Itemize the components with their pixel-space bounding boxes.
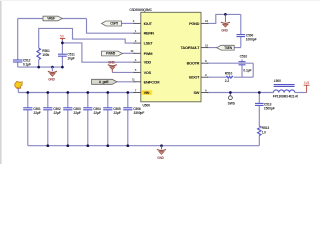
capacitor C501 <box>23 107 41 115</box>
svg-text:GND: GND <box>157 156 164 160</box>
page left edge <box>0 0 2 164</box>
wire C511 bottom <box>61 57 63 67</box>
ground bottom bus <box>157 146 166 160</box>
junction node C506/VIN bus <box>126 91 129 94</box>
svg-text:0.1µF: 0.1µF <box>23 63 31 67</box>
junction node C502/VIN bus <box>46 91 49 94</box>
svg-text:REFIN: REFIN <box>144 31 155 36</box>
wire VOS to gnd stub <box>112 71 135 73</box>
wire C505 top lead <box>107 93 109 108</box>
svg-text:TAO/FAULT: TAO/FAULT <box>181 45 200 50</box>
svg-text:C510: C510 <box>240 55 248 59</box>
wire C502 top lead <box>47 93 49 108</box>
wire C504 top lead <box>87 93 89 108</box>
wire L500 to VOUT flag <box>295 92 307 94</box>
wire VIN bus <box>18 92 135 94</box>
junction node gnd/bottom bus <box>160 144 163 147</box>
net tag TSEN <box>217 45 234 50</box>
svg-text:U500: U500 <box>143 104 151 108</box>
svg-text:BOOTR: BOOTR <box>187 61 200 66</box>
wire ground bus left <box>18 66 63 68</box>
junction node PGND/gnd <box>224 13 227 16</box>
pin 2 IOUT <box>133 19 153 26</box>
svg-text:22µF: 22µF <box>94 111 101 115</box>
svg-text:3300pF: 3300pF <box>134 111 145 115</box>
svg-text:A_gat5: A_gat5 <box>99 80 109 84</box>
wire C513 top lead <box>258 93 260 104</box>
svg-text:FP1308R3-R21-R: FP1308R3-R21-R <box>273 95 299 99</box>
wire C503 top lead <box>67 93 69 108</box>
wire TSEN to C500 <box>207 47 241 49</box>
pin 6 SW <box>194 88 209 95</box>
pin 10 PWM <box>130 49 152 56</box>
wire C512 bottom <box>17 63 19 68</box>
wire PGND up and over <box>207 14 241 23</box>
svg-text:2.2: 2.2 <box>225 79 230 83</box>
wire REFIN drop <box>87 19 136 34</box>
wire A_gate stub <box>117 81 135 83</box>
wire R513 bottom <box>258 135 260 145</box>
junction node C504/VIN bus <box>86 91 89 94</box>
svg-text:22µF: 22µF <box>54 111 61 115</box>
wire C506 bottom lead <box>127 110 129 145</box>
junction node R501/gnd bus <box>37 66 40 69</box>
svg-text:22µF: 22µF <box>34 111 41 115</box>
wire 12Vin lead <box>17 88 19 92</box>
svg-text:1.0: 1.0 <box>262 130 267 134</box>
inductor L500 <box>273 79 299 99</box>
net tag VREF <box>43 16 62 21</box>
capacitor C503 <box>63 107 81 115</box>
svg-text:GND: GND <box>221 29 228 33</box>
wire bottom ground bus <box>28 145 259 147</box>
capacitor C512 <box>13 58 31 66</box>
svg-text:1000pF: 1000pF <box>246 37 257 41</box>
page top edge <box>0 0 320 1</box>
junction node SW/SWS <box>229 91 232 94</box>
resistor R510 <box>225 71 233 83</box>
svg-text:0.1µF: 0.1µF <box>243 68 251 72</box>
wire R501 bottom <box>38 60 40 67</box>
ground top right <box>221 14 230 32</box>
wire SW <box>207 92 273 94</box>
test point SWS <box>228 96 236 106</box>
svg-text:BOOT: BOOT <box>189 75 200 80</box>
junction node C511/gnd bus <box>61 66 64 69</box>
wire SWS stub <box>229 93 231 97</box>
svg-text:EN/FCCM: EN/FCCM <box>144 79 160 84</box>
junction node C505/bottom bus <box>106 144 109 147</box>
svg-text:GND: GND <box>48 77 55 81</box>
svg-text:100k: 100k <box>42 53 49 57</box>
svg-text:PWM: PWM <box>144 51 153 56</box>
capacitor C502 <box>43 107 61 115</box>
wire BOOT left part <box>207 76 226 78</box>
wire C502 bottom lead <box>47 110 49 145</box>
svg-text:CSD95490Q5MC: CSD95490Q5MC <box>129 8 152 12</box>
ground at VOS <box>108 61 117 73</box>
capacitor C504 <box>83 107 101 115</box>
op-amp U500 power stage CSD95490Q5MC body <box>129 8 201 107</box>
wire BOOT right part <box>234 76 254 78</box>
svg-text:LSET: LSET <box>144 41 154 46</box>
junction node 5V/VDD <box>61 42 64 45</box>
power flag 12Vin <box>15 81 23 88</box>
net tag A_gat5 <box>92 79 117 84</box>
pin 5 VOS <box>134 68 152 75</box>
capacitor C505 <box>103 107 121 115</box>
wire 5V node down to C511 <box>61 39 63 54</box>
svg-text:VOS: VOS <box>144 70 152 75</box>
svg-text:IOUT: IOUT <box>144 21 153 26</box>
wire C500 top lead <box>240 14 242 34</box>
svg-text:L500: L500 <box>274 79 281 83</box>
net tag PWM5 <box>102 51 123 56</box>
capacitor C500 <box>237 34 257 42</box>
wire BOOTR <box>207 62 253 64</box>
svg-text:22µF: 22µF <box>74 111 81 115</box>
svg-text:PWM5: PWM5 <box>106 52 115 56</box>
pin 11 EN/FCOM <box>132 78 159 85</box>
capacitor C506 <box>123 107 144 115</box>
pin 4 VDD <box>134 58 152 65</box>
resistor R513 <box>258 126 270 135</box>
pin 12 TAO/FAULT <box>181 43 209 50</box>
svg-text:1500pF: 1500pF <box>264 106 275 110</box>
svg-text:VREF: VREF <box>47 17 55 21</box>
wire R501 top to LSET <box>39 28 135 48</box>
wire C506 top lead <box>127 93 129 108</box>
svg-text:GND: GND <box>108 61 115 65</box>
junction node C505/VIN bus <box>106 91 109 94</box>
junction node C503/VIN bus <box>66 91 69 94</box>
wire 5V node to VDD <box>62 43 135 62</box>
junction node C502/bottom bus <box>46 144 49 147</box>
svg-text:VIN: VIN <box>144 90 150 95</box>
wire C501 top lead <box>27 93 29 108</box>
pin 7 VIN <box>134 88 153 95</box>
capacitor C511 <box>58 53 75 61</box>
svg-text:SW: SW <box>194 90 200 95</box>
svg-text:PGND: PGND <box>189 21 200 26</box>
resistor R501 <box>37 48 50 59</box>
power flag 5V <box>60 35 65 41</box>
svg-text:SWS: SWS <box>228 102 236 106</box>
wire C503 bottom lead <box>67 110 69 145</box>
junction node C506/bottom bus <box>126 144 129 147</box>
ground left of C511 <box>48 67 57 81</box>
svg-text:TSEN: TSEN <box>224 46 233 50</box>
svg-text:VDD: VDD <box>144 60 152 65</box>
junction node SW/C513 <box>258 91 261 94</box>
pin 3 LSET <box>134 39 154 46</box>
power flag VOUT 1V8 <box>304 81 310 92</box>
wire CSP5 stub <box>122 22 136 24</box>
pin 1 REFIN <box>134 29 155 36</box>
wire C500 bottom lead <box>240 37 242 48</box>
wire C501 bottom lead <box>27 110 29 145</box>
wire VREF horizontal <box>18 18 87 20</box>
wire VREF left vertical to C512 <box>17 19 19 60</box>
wire C510 top lead <box>241 59 243 61</box>
wire C504 bottom lead <box>87 110 89 145</box>
wire C505 bottom lead <box>107 110 109 145</box>
net tag CSP5 <box>102 21 122 26</box>
junction node C503/bottom bus <box>66 144 69 147</box>
wire C513 to R513 <box>258 106 260 126</box>
junction node gnd symbol/gnd bus <box>51 66 54 69</box>
pin 13 PGND <box>189 19 208 26</box>
capacitor C510 <box>239 55 252 73</box>
junction node C504/bottom bus <box>86 144 89 147</box>
svg-text:10µF: 10µF <box>67 57 74 61</box>
wire PWM5 stub <box>123 52 136 54</box>
wire boot loop right <box>252 63 254 77</box>
pin 9 BOOT <box>189 73 208 80</box>
svg-text:1V8: 1V8 <box>304 81 310 85</box>
svg-text:R510: R510 <box>225 71 233 75</box>
capacitor C513 <box>255 103 275 111</box>
svg-text:CSP5: CSP5 <box>110 22 118 26</box>
junction node C501/VIN bus <box>26 91 29 94</box>
pin 8 BOOTR <box>187 59 209 66</box>
svg-text:22µF: 22µF <box>114 111 121 115</box>
wire C510 bottom lead <box>241 65 243 77</box>
